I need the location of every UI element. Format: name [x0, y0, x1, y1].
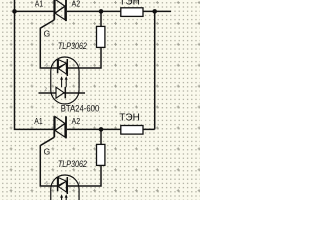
svg-text:ТЭН: ТЭН	[119, 0, 140, 7]
svg-text:A1: A1	[35, 0, 43, 9]
svg-text:G: G	[44, 146, 51, 156]
svg-text:A2: A2	[72, 0, 81, 9]
svg-text:A1: A1	[34, 117, 42, 126]
svg-text:TLP3062: TLP3062	[58, 41, 87, 51]
svg-text:A2: A2	[72, 117, 81, 126]
svg-text:TLP3062: TLP3062	[58, 159, 87, 169]
svg-text:ТЭН: ТЭН	[119, 112, 140, 123]
svg-text:BTA24-600: BTA24-600	[61, 103, 100, 113]
svg-text:G: G	[44, 28, 51, 38]
